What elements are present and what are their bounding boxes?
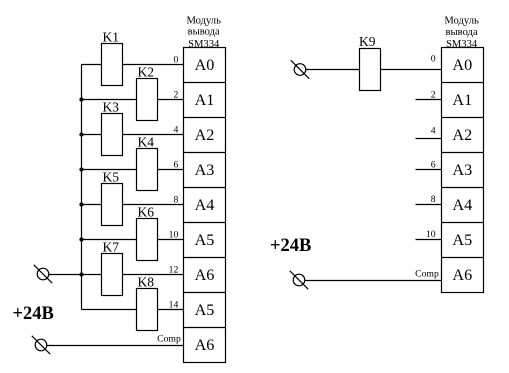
stub wire U2 pin 10 (unconnected) xyxy=(416,239,442,241)
svg-text:10: 10 xyxy=(169,229,179,240)
svg-text:0: 0 xyxy=(431,54,436,65)
svg-text:8: 8 xyxy=(173,194,178,205)
wire relay K4 to U1 pin 6 xyxy=(158,169,184,171)
wire relay K5 to U1 pin 8 xyxy=(123,204,184,206)
svg-text:2: 2 xyxy=(173,89,178,100)
svg-text:K3: K3 xyxy=(103,99,120,114)
svg-text:Модуль: Модуль xyxy=(186,16,221,27)
svg-text:A6: A6 xyxy=(195,266,215,284)
stub wire U2 pin 6 (unconnected) xyxy=(416,169,442,171)
svg-text:0: 0 xyxy=(173,54,178,65)
relay coil K3 xyxy=(102,99,123,155)
svg-text:SM334: SM334 xyxy=(188,39,220,50)
svg-text:K1: K1 xyxy=(103,29,120,44)
svg-text:Модуль: Модуль xyxy=(444,16,479,27)
svg-text:K4: K4 xyxy=(138,134,155,149)
svg-text:A1: A1 xyxy=(452,91,472,109)
svg-text:A2: A2 xyxy=(452,126,472,144)
wire bus to relay K4 xyxy=(82,169,137,171)
wire bus to relay K2 xyxy=(82,99,137,101)
label U2 header "Модуль вывода SM334" xyxy=(444,16,479,50)
svg-text:10: 10 xyxy=(426,229,436,240)
svg-text:A5: A5 xyxy=(452,231,472,249)
svg-text:Comp: Comp xyxy=(415,268,439,279)
junction dot on bus (row 2) xyxy=(79,97,83,101)
svg-text:A0: A0 xyxy=(452,56,472,74)
svg-text:вывода: вывода xyxy=(446,27,478,38)
wire bus to relay K1 xyxy=(82,64,102,66)
relay coil K8 xyxy=(137,274,158,330)
wire relay K2 to U1 pin 2 xyxy=(158,99,184,101)
svg-text:K6: K6 xyxy=(138,204,155,219)
relay coil K5 xyxy=(102,169,123,225)
junction dot on bus (row 8) xyxy=(79,202,83,206)
wire relay K6 to U1 pin 10 xyxy=(158,239,184,241)
stub wire U2 pin 2 (unconnected) xyxy=(416,99,442,101)
svg-text:2: 2 xyxy=(431,89,436,100)
svg-text:4: 4 xyxy=(173,124,178,135)
terminal X4 (Comp return, right, circle with slash) xyxy=(290,271,308,289)
terminal X3 (+24V supply, right, circle with slash) xyxy=(291,60,309,78)
svg-text:K2: K2 xyxy=(138,64,155,79)
wire terminal X4 to U2 pin Comp xyxy=(305,280,442,282)
svg-text:K8: K8 xyxy=(138,274,155,289)
wire terminal X3 to relay K9 xyxy=(306,69,360,71)
svg-text:SM334: SM334 xyxy=(446,39,478,50)
junction dot on bus (row 6) xyxy=(79,167,83,171)
stub wire U2 pin 4 (unconnected) xyxy=(416,138,442,140)
svg-text:A6: A6 xyxy=(452,266,472,284)
wire from terminal X1 to bus and relay K7 (row 12) xyxy=(49,274,102,276)
wire bus to relay K3 xyxy=(82,134,102,136)
junction dot on bus (row 12) xyxy=(79,272,83,276)
label U1 header "Модуль вывода SM334" xyxy=(186,16,221,50)
svg-text:14: 14 xyxy=(169,299,179,310)
relay coil K9 xyxy=(359,34,380,90)
stub wire U2 pin 8 (unconnected) xyxy=(416,204,442,206)
output module U1 "Модуль вывода SM334" (left) xyxy=(184,48,226,363)
svg-text:Comp: Comp xyxy=(157,334,181,345)
svg-text:12: 12 xyxy=(169,264,179,275)
svg-text:8: 8 xyxy=(431,194,436,205)
svg-text:4: 4 xyxy=(431,125,436,136)
svg-text:A3: A3 xyxy=(195,161,215,179)
relay coil K7 xyxy=(102,239,123,295)
svg-text:6: 6 xyxy=(173,159,178,170)
wire +24V bus (vertical, left) xyxy=(81,65,83,310)
svg-text:K9: K9 xyxy=(359,34,376,49)
relay coil K1 xyxy=(102,29,123,85)
wire relay K8 to U1 pin 14 xyxy=(158,309,184,311)
svg-text:A6: A6 xyxy=(195,336,215,354)
wire relay K7 to U1 pin 12 xyxy=(123,274,184,276)
svg-text:A5: A5 xyxy=(195,231,215,249)
wire terminal X2 to U1 pin Comp xyxy=(47,345,184,347)
svg-text:K7: K7 xyxy=(103,239,120,254)
wire bus to relay K6 xyxy=(82,239,137,241)
svg-text:+24В: +24В xyxy=(13,304,54,324)
wire relay K1 to U1 pin 0 xyxy=(123,64,184,66)
output module U2 "Модуль вывода SM334" (right) xyxy=(442,48,484,293)
junction dot on bus (row 10) xyxy=(79,237,83,241)
svg-text:K5: K5 xyxy=(103,169,120,184)
wire relay K3 to U1 pin 4 xyxy=(123,134,184,136)
wire bus to relay K8 xyxy=(82,309,137,311)
svg-text:вывода: вывода xyxy=(188,26,220,37)
svg-text:A0: A0 xyxy=(195,56,215,74)
terminal X2 (Comp return, left, circle with slash) xyxy=(32,336,50,354)
svg-text:+24В: +24В xyxy=(270,236,311,256)
svg-text:A4: A4 xyxy=(452,196,472,214)
wire relay K9 to U2 pin 0 xyxy=(381,69,442,71)
svg-text:A5: A5 xyxy=(195,301,215,319)
relay coil K2 xyxy=(137,64,158,120)
wire bus to relay K5 xyxy=(82,204,102,206)
svg-text:A4: A4 xyxy=(195,196,215,214)
junction dot on bus (row 4) xyxy=(79,132,83,136)
svg-text:A1: A1 xyxy=(195,91,215,109)
svg-text:6: 6 xyxy=(431,159,436,170)
terminal X1 (+24V supply, left, circle with slash) xyxy=(34,265,52,283)
relay coil K4 xyxy=(137,134,158,190)
svg-text:A2: A2 xyxy=(195,126,215,144)
svg-text:A3: A3 xyxy=(452,161,472,179)
relay coil K6 xyxy=(137,204,158,260)
